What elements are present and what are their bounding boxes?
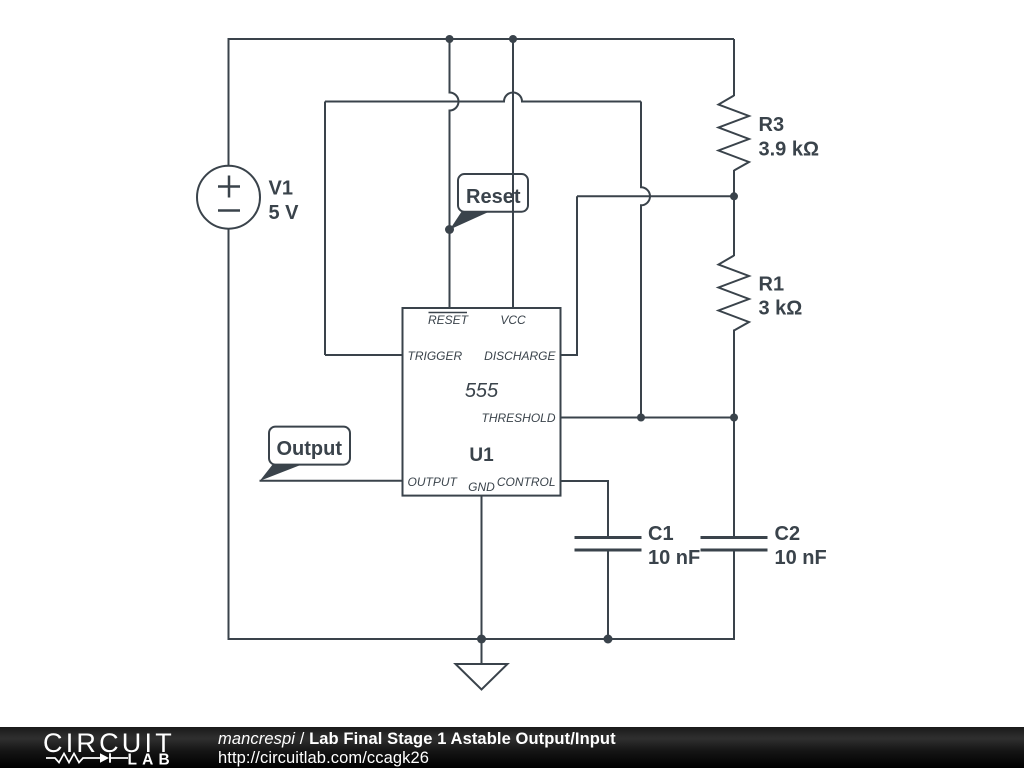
- capacitor C2 plates: [701, 538, 768, 551]
- svg-text:Reset: Reset: [466, 186, 521, 208]
- svg-text:C2: C2: [775, 523, 801, 545]
- wire control pin stub: [560, 481, 608, 538]
- capacitor C1 plates: [575, 538, 642, 551]
- ground symbol: [456, 639, 508, 690]
- svg-text:DISCHARGE: DISCHARGE: [484, 349, 556, 363]
- junction dot C1 / bottom rail: [604, 635, 613, 644]
- flag Reset pointer tail: [450, 212, 489, 230]
- wire discharge pin stub: [560, 354, 577, 356]
- wire discharge to divider node horizontal: [577, 195, 734, 197]
- svg-text:CONTROL: CONTROL: [497, 475, 556, 489]
- resistor R3: [719, 96, 750, 171]
- svg-text:10 nF: 10 nF: [775, 547, 827, 569]
- svg-text:555: 555: [465, 380, 499, 402]
- svg-text:Output: Output: [277, 438, 343, 460]
- svg-text:C1: C1: [648, 523, 674, 545]
- svg-text:3.9 kΩ: 3.9 kΩ: [759, 139, 820, 161]
- junction dot GND / bottom rail: [477, 635, 486, 644]
- wire RESET net vertical with hop over trigger wire: [450, 39, 459, 308]
- wire threshold-trigger vertical with hop over discharge wire: [641, 102, 650, 418]
- wire threshold horizontal: [560, 417, 734, 419]
- svg-text:10 nF: 10 nF: [648, 547, 700, 569]
- svg-text:TRIGGER: TRIGGER: [408, 349, 463, 363]
- wire C2 bottom to bottom rail: [733, 550, 735, 640]
- wire bottom rail: [228, 638, 735, 640]
- U1 pin label RESET with overline: [428, 313, 470, 328]
- svg-text:VCC: VCC: [500, 313, 526, 327]
- V1 minus sign: [218, 209, 240, 212]
- wire discharge vertical: [576, 196, 578, 356]
- junction dot threshold vertical: [637, 414, 645, 422]
- svg-text:GND: GND: [468, 480, 495, 494]
- footer bar: [0, 727, 1024, 768]
- flag Output box: [269, 427, 350, 465]
- wire GND pin vertical: [481, 496, 483, 639]
- svg-text:R3: R3: [759, 114, 785, 136]
- svg-text:RESET: RESET: [428, 313, 470, 327]
- svg-text:R1: R1: [759, 274, 785, 296]
- wire R1 bottom to C2 top: [733, 330, 735, 538]
- junction dot divider node R3/R1: [730, 192, 738, 200]
- wire trigger net horizontal with hop over VCC wire: [325, 93, 641, 102]
- svg-text:THRESHOLD: THRESHOLD: [481, 411, 555, 425]
- flag Reset box: [458, 174, 528, 212]
- junction dot top rail / VCC: [509, 35, 517, 43]
- svg-text:U1: U1: [469, 445, 494, 466]
- op-amp 555 timer U1 box: [403, 308, 561, 496]
- wire left rail lower (V- to bottom rail): [228, 229, 230, 640]
- voltage source V1 circle: [197, 166, 260, 229]
- V1 plus sign: [218, 176, 240, 198]
- svg-text:5 V: 5 V: [269, 202, 300, 224]
- wire between R3 and R1: [733, 170, 735, 256]
- wire C1 bottom to bottom rail: [607, 550, 609, 639]
- CircuitLab logo: [41, 727, 186, 768]
- svg-text:LAB: LAB: [128, 752, 175, 768]
- resistor R1: [719, 256, 750, 331]
- wire right column top (top rail to R3): [733, 39, 735, 96]
- junction dot reset flag: [445, 225, 454, 234]
- wire trigger pin stub: [325, 354, 403, 356]
- wire top rail: [228, 38, 735, 40]
- svg-text:3 kΩ: 3 kΩ: [759, 298, 803, 320]
- junction dot threshold / R column: [730, 414, 738, 422]
- footer title text: [218, 730, 616, 768]
- wire left rail upper (V+ to top rail): [228, 39, 230, 166]
- flag Output pointer tail: [260, 465, 302, 481]
- svg-text:OUTPUT: OUTPUT: [408, 475, 459, 489]
- wire output pin: [260, 480, 404, 482]
- junction dot top rail / RESET: [446, 35, 454, 43]
- wire trigger net vertical: [324, 102, 326, 356]
- svg-text:V1: V1: [269, 178, 293, 200]
- wire VCC net vertical: [512, 39, 514, 308]
